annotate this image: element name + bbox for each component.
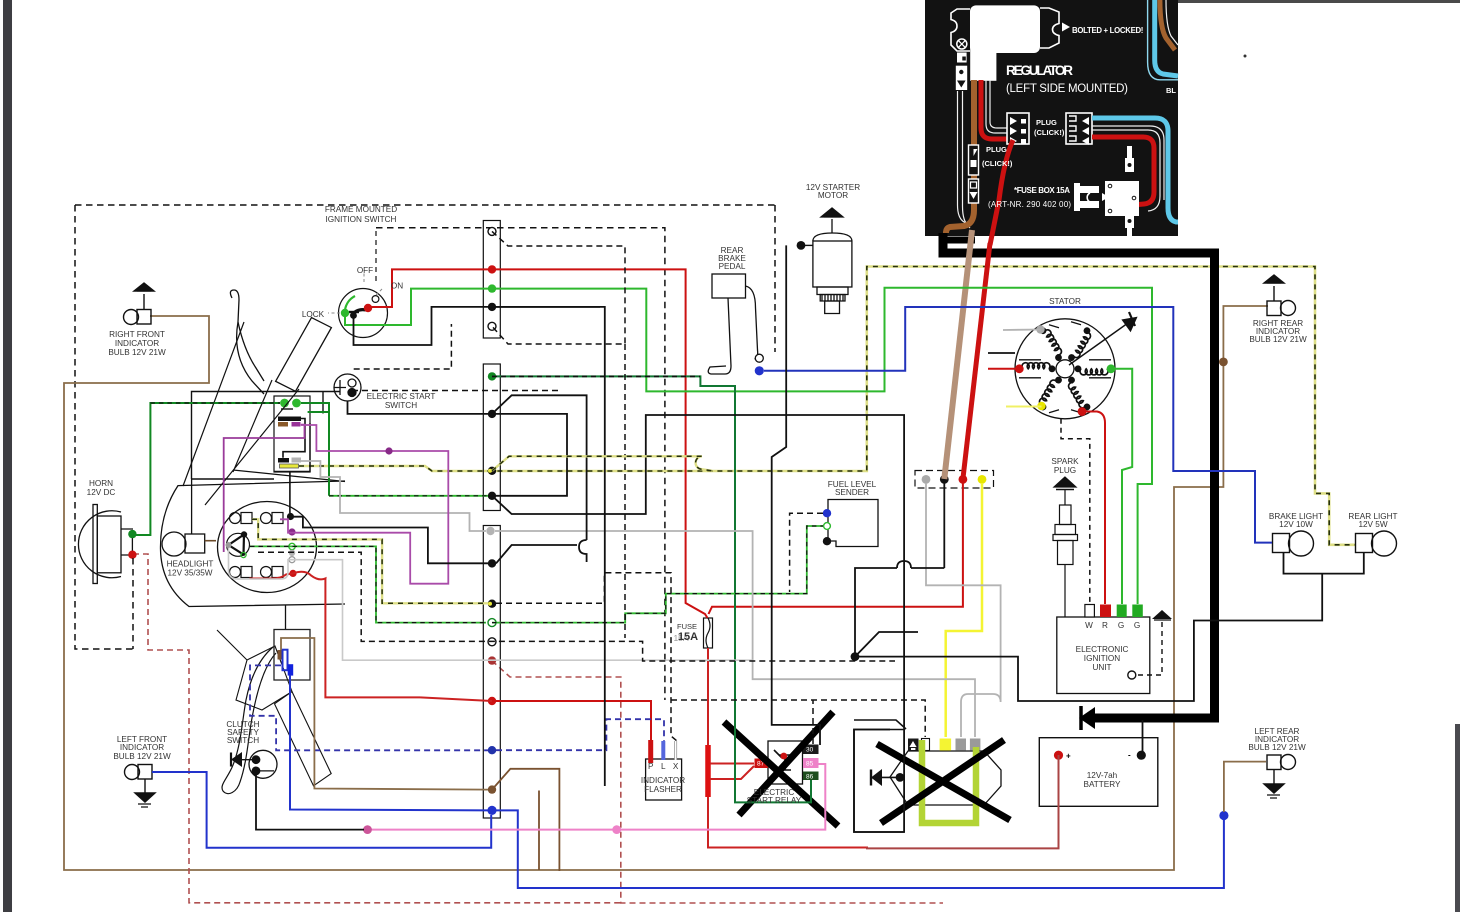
- top page edge line: [1176, 0, 1460, 3]
- wire: yellow-black dashed strip diagonal: [492, 456, 712, 471]
- brown border loop: indicators/frame ground: [64, 306, 1268, 870]
- wire: black dashed fuel sender tap: [790, 513, 823, 592]
- wire: black dashed ignition switch frame: [375, 231, 377, 282]
- junction strip 2: [483, 364, 500, 511]
- yellow-black striped border (rear lights feed): [299, 267, 1356, 545]
- main dashed border top: [75, 204, 775, 206]
- svg-text:12V 10W: 12V 10W: [1279, 520, 1313, 529]
- svg-text:ELECTRIC START: ELECTRIC START: [367, 392, 436, 401]
- brake lever curve: [230, 290, 264, 381]
- svg-text:INDICATOR: INDICATOR: [120, 743, 164, 752]
- wire: grey connector to CDI with hop: [926, 483, 1001, 737]
- svg-text:(LEFT SIDE MOUNTED): (LEFT SIDE MOUNTED): [1006, 83, 1128, 95]
- svg-text:12V DC: 12V DC: [87, 488, 116, 497]
- svg-text:IGNITION: IGNITION: [1084, 654, 1120, 663]
- wire: black stator connector down with hop: [855, 483, 944, 657]
- clutch safety switch: [249, 750, 277, 778]
- wire: black diagonal from ground dot: [855, 632, 918, 657]
- right rear indicator bulb: [1264, 275, 1296, 316]
- svg-text:G: G: [1118, 621, 1124, 630]
- svg-text:*FUSE BOX 15A: *FUSE BOX 15A: [1014, 186, 1070, 195]
- svg-text:FRAME MOUNTED: FRAME MOUNTED: [325, 205, 397, 214]
- wire: purple handlebar run: [224, 425, 305, 552]
- wire: violet headlight-to-switch loop: [280, 425, 448, 584]
- wire: black ignition switch run: [354, 307, 605, 786]
- wire: black dashed start switch tap: [352, 324, 560, 391]
- inset: red wire from right plug going right, down to fuse box: [1092, 137, 1154, 205]
- wire: maroon battery positive: [866, 755, 1059, 848]
- electric start switch: [334, 374, 361, 401]
- svg-text:PEDAL: PEDAL: [719, 262, 746, 271]
- svg-text:L: L: [661, 762, 666, 771]
- wire: blue clutch to strip: [290, 675, 488, 810]
- fuse 15A: [704, 618, 713, 648]
- svg-text:FLASHER: FLASHER: [644, 785, 682, 794]
- inset: red wire beside brown: [981, 80, 1007, 139]
- rear light bulb: [1356, 531, 1397, 556]
- wire: black ground bus to lights: [855, 553, 1364, 702]
- svg-text:(ART-NR. 290 402 00): (ART-NR. 290 402 00): [988, 200, 1071, 209]
- big X over relay: [724, 712, 838, 826]
- headlight connector ellipse: [218, 502, 317, 593]
- inset: thin cyan line top right: [1148, 0, 1178, 80]
- svg-text:STATOR: STATOR: [1049, 297, 1081, 306]
- headlight bucket: [160, 481, 345, 607]
- svg-text:86: 86: [806, 774, 814, 781]
- wire: black dashed headlight to strip to relay area: [258, 552, 895, 661]
- svg-text:PLUG: PLUG: [986, 145, 1007, 154]
- wire: black dashed strip taps: [492, 231, 625, 344]
- handlebar switch housing: [192, 392, 341, 480]
- wire: black start switch run: [348, 401, 489, 414]
- svg-text:-: -: [1128, 751, 1131, 760]
- svg-text:SPARK: SPARK: [1051, 457, 1079, 466]
- svg-text:HEADLIGHT: HEADLIGHT: [167, 560, 214, 569]
- svg-text:REGULATOR: REGULATOR: [1006, 63, 1073, 78]
- fuel level sender: [828, 500, 878, 547]
- wire: green dashed headlight to strip: [250, 496, 488, 623]
- wire: yellow stator stub: [1006, 406, 1042, 408]
- wire: red stator stub: [988, 368, 1019, 370]
- inset: texts: [982, 26, 1176, 209]
- wire: red headlight low beam: [249, 572, 420, 698]
- wire: black clutch switch to pink junction: [256, 774, 364, 830]
- headlight main bulb: [162, 532, 186, 556]
- svg-text:12V-7ah: 12V-7ah: [1087, 771, 1118, 780]
- inset: brown wire from regulator: [946, 80, 974, 233]
- main dashed border left: [75, 205, 133, 649]
- wire: tan left rear indicator: [1224, 762, 1266, 812]
- steering lock bar: [276, 318, 332, 392]
- big X over CDI: [877, 740, 1010, 823]
- inset: small square below screw: [957, 53, 967, 63]
- regulator photo inset (black): [925, 0, 1178, 236]
- svg-text:X: X: [673, 762, 679, 771]
- svg-text:(CLICK!): (CLICK!): [982, 159, 1013, 168]
- wire: red ignition feed: [370, 269, 708, 618]
- inset: right plug: [1066, 113, 1092, 144]
- svg-text:BULB 12V 21W: BULB 12V 21W: [1248, 743, 1306, 752]
- inset: fuse box body: [1105, 181, 1139, 216]
- svg-text:BULB 12V 21W: BULB 12V 21W: [108, 348, 166, 357]
- wire: blue left front indicator loop: [152, 772, 491, 848]
- svg-text:INDICATOR: INDICATOR: [641, 776, 685, 785]
- wire: chartreuse stub: [919, 740, 926, 747]
- horn: [78, 505, 133, 584]
- wire: red fuse to relay/battery: [708, 648, 868, 848]
- wire: black strip lower diagonal: [496, 545, 577, 563]
- svg-text:SWITCH: SWITCH: [385, 401, 417, 410]
- svg-text:BL: BL: [1166, 86, 1176, 95]
- wire: red thick feed bar: [705, 745, 711, 797]
- wire: green jog to ignition unit G2: [1138, 481, 1152, 604]
- right page edge strip: [1455, 724, 1460, 912]
- dashed border right drop to rear brake pedal: [774, 205, 776, 352]
- headlight inner bulbs: [227, 513, 284, 578]
- svg-text:FUSE: FUSE: [677, 622, 697, 631]
- svg-text:MOTOR: MOTOR: [818, 191, 848, 200]
- wire: black battery negative: [1142, 720, 1144, 755]
- svg-text:R: R: [1102, 621, 1108, 630]
- wire: brown dot on border: [1219, 358, 1228, 367]
- inset: regulator body white: [970, 5, 1040, 53]
- wire: black dashed stator to ignition unit W: [1061, 419, 1090, 604]
- wire: black strip box loop: [492, 414, 567, 496]
- inset: fuse box top/bottom tabs: [1125, 146, 1134, 172]
- junction strip 1: [483, 221, 500, 339]
- frame mounted ignition switch: [328, 270, 388, 338]
- handlebar connector block: [274, 396, 310, 472]
- wire: dark green start switch to relay: [492, 376, 811, 802]
- wire: tan diagonal from regulator: [944, 230, 972, 479]
- svg-text:IGNITION SWITCH: IGNITION SWITCH: [326, 215, 397, 224]
- svg-text:G: G: [1134, 621, 1140, 630]
- stator: [1015, 312, 1137, 419]
- svg-text:INDICATOR: INDICATOR: [115, 339, 159, 348]
- stator coils: [1019, 322, 1111, 413]
- svg-text:85: 85: [806, 761, 814, 768]
- inset: cyan wire top right: [1155, 0, 1178, 76]
- svg-text:START RELAY: START RELAY: [747, 796, 802, 805]
- svg-text:BATTERY: BATTERY: [1083, 780, 1121, 789]
- CDI chartreuse loop: [922, 747, 976, 823]
- wire: green ignition to stator loop: [345, 288, 1152, 481]
- svg-text:+: +: [1066, 752, 1071, 761]
- svg-text:BULB 12V 21W: BULB 12V 21W: [113, 752, 171, 761]
- svg-text:SENDER: SENDER: [835, 488, 869, 497]
- right front indicator bulb: [124, 283, 155, 325]
- svg-text:BOLTED + LOCKED!: BOLTED + LOCKED!: [1072, 26, 1143, 35]
- indicator flasher: [646, 759, 682, 800]
- svg-text:LOCK: LOCK: [302, 310, 325, 319]
- wire: black headlight pin run: [294, 517, 488, 564]
- stator connector block: [915, 471, 994, 489]
- inset: center plug: [1007, 113, 1029, 144]
- inset: white line beside red: [986, 80, 1007, 133]
- wire: black dashed relay 30 tap: [812, 700, 814, 744]
- svg-text:ELECTRONIC: ELECTRONIC: [1076, 645, 1129, 654]
- svg-text:12V 5W: 12V 5W: [1358, 520, 1387, 529]
- wire: green stator to ignition unit G1: [1111, 369, 1132, 604]
- CDI unit crossed out: [890, 751, 1001, 805]
- stray dot: [1244, 55, 1247, 58]
- inset: brown wire top right corner: [1160, 0, 1175, 50]
- wire: black stator stub: [988, 352, 1015, 354]
- CDI left box and arrow: [854, 730, 904, 833]
- wire: black dashed flasher X to CDI: [496, 573, 925, 741]
- wire: green dashed strip to fuel sender: [492, 526, 823, 623]
- svg-text:ON: ON: [391, 282, 403, 291]
- wire: red diagonal from regulator: [963, 243, 990, 479]
- svg-text:SWITCH: SWITCH: [227, 736, 259, 745]
- wire: black starter motor to relay: [772, 245, 820, 745]
- wire: pink clutch run: [368, 764, 826, 830]
- wire: green handlebar loop: [301, 403, 329, 496]
- wire: brown strip diagonal to bottom: [492, 769, 559, 871]
- wire: yellow-black dashed headlight to strip: [252, 519, 488, 603]
- inset: bracket screw: [957, 39, 967, 49]
- inset: regulator left ear: [951, 9, 970, 51]
- svg-text:OFF: OFF: [357, 266, 373, 275]
- svg-text:P: P: [648, 762, 654, 771]
- inset: fuse clip symbol left of fuse box: [1077, 186, 1099, 193]
- svg-text:BULB 12V 21W: BULB 12V 21W: [1249, 335, 1307, 344]
- brake light bulb: [1273, 531, 1314, 556]
- svg-text:RIGHT FRONT: RIGHT FRONT: [109, 330, 165, 339]
- wire: red stator connector to fuse: [709, 483, 963, 614]
- wire: red flasher P feed: [492, 701, 651, 741]
- svg-text:PLUG: PLUG: [1036, 118, 1057, 127]
- dark red dashed wire (horn branch, bottom): [133, 554, 622, 903]
- inset: left small plug connector pair: [969, 145, 979, 175]
- wire: navy dashed clutch to flasher L: [250, 665, 664, 750]
- wire: green horn to handlebar: [133, 403, 280, 535]
- clutch cable box: [274, 630, 310, 681]
- wire: red branches to start relay: [710, 764, 754, 780]
- wire: grey handlebar to CDI: [300, 461, 486, 531]
- wire: blue rear brake to brake light: [764, 307, 1272, 543]
- svg-text:UNIT: UNIT: [1092, 663, 1111, 672]
- thick black harness: [943, 233, 1215, 718]
- left front indicator bulb: [125, 765, 156, 808]
- inset: red diagonal wire to stator connector: [990, 140, 1013, 245]
- wire: blue bottom run to left rear indicator: [492, 810, 1224, 888]
- svg-text:PLUG: PLUG: [1054, 466, 1076, 475]
- svg-text:12V 35/35W: 12V 35/35W: [167, 569, 212, 578]
- wire: grey stator stub: [1003, 329, 1041, 332]
- fork / frame lines: [183, 322, 299, 505]
- 12V starter motor: [813, 208, 852, 314]
- svg-text:15A: 15A: [678, 631, 698, 643]
- inset: wire bundle white outlines left: [958, 91, 971, 228]
- horn dashed link: [132, 558, 134, 649]
- electric start relay: [768, 741, 803, 784]
- svg-text:HORN: HORN: [89, 479, 113, 488]
- rear brake pedal: [708, 274, 763, 374]
- battery: [1039, 738, 1158, 807]
- wire: brown headlight stub: [205, 540, 216, 542]
- dashed vertical x=665: [376, 228, 665, 700]
- inset: bolted arrow: [1062, 23, 1070, 32]
- electronic ignition unit: [1057, 617, 1150, 694]
- left page edge strip: [0, 0, 13, 912]
- left rear indicator bulb: [1264, 755, 1296, 799]
- wire: yellow connector to CDI: [946, 483, 982, 737]
- wire: black strip diagonal up: [492, 395, 587, 562]
- inset: cyan wire from right plug going right and down: [1092, 118, 1178, 222]
- wire: red stator to ignition unit R: [1082, 412, 1105, 605]
- wire: grey headlight run: [229, 548, 753, 660]
- inset: regulator right ear: [1040, 8, 1059, 48]
- svg-text:W: W: [1085, 621, 1093, 630]
- svg-text:(CLICK!): (CLICK!): [1034, 128, 1065, 137]
- spark plug: [1053, 477, 1078, 617]
- clutch lever: [222, 647, 276, 794]
- headlight pins: [287, 513, 294, 520]
- inset: small connector below bracket: [956, 66, 967, 90]
- wire: black strip to frame loop: [492, 415, 904, 832]
- svg-text:30: 30: [806, 747, 814, 754]
- wire: brown clutch loop to strip: [281, 638, 488, 790]
